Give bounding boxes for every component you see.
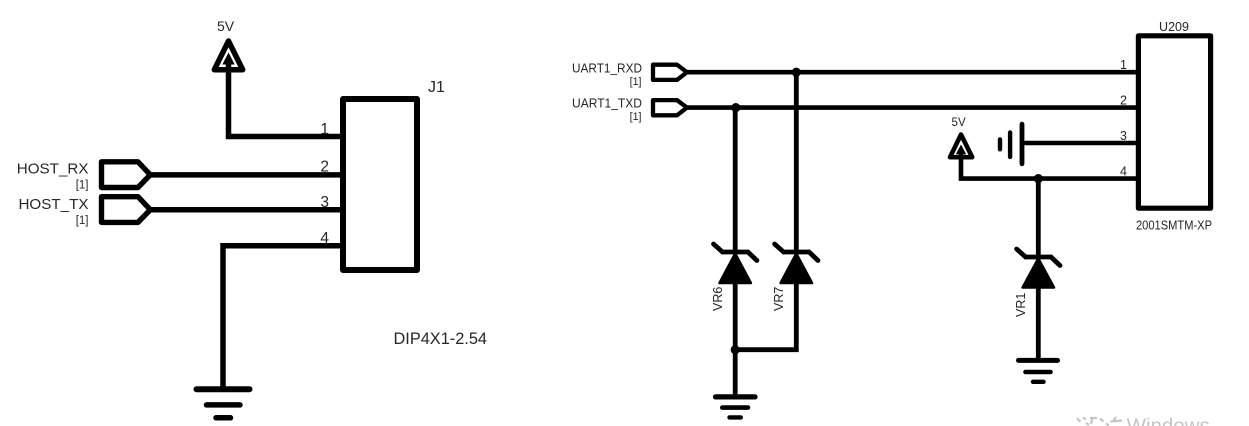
svg-text:[1]: [1] (630, 111, 642, 123)
svg-text:HOST_TX: HOST_TX (18, 196, 88, 213)
wire junction down to VR1 (1036, 179, 1041, 256)
svg-text:1: 1 (320, 121, 329, 138)
svg-text:UART1_TXD: UART1_TXD (572, 97, 642, 111)
svg-text:1: 1 (1120, 58, 1127, 72)
wire 5V (right) to U209 pin 4 (961, 155, 1138, 179)
earth ground at U209 pin 3 (1000, 124, 1022, 164)
junction on RXD line (to VR7) (792, 68, 801, 77)
wire earth ground to U209 pin 3 (1022, 141, 1138, 146)
svg-text:5V: 5V (217, 18, 235, 34)
wire VR6 to ground (733, 283, 738, 397)
svg-text:[1]: [1] (630, 76, 642, 88)
port HOST_TX (18, 196, 150, 227)
svg-text:2: 2 (320, 159, 329, 176)
svg-text:4: 4 (1120, 164, 1127, 178)
zener diode VR6 (711, 244, 757, 311)
svg-text:3: 3 (320, 194, 329, 211)
svg-text:2001SMTM-XP: 2001SMTM-XP (1136, 219, 1212, 233)
power symbol 5V (left) (214, 18, 242, 72)
junction on TXD line (to VR6) (731, 103, 740, 112)
svg-text:[1]: [1] (76, 180, 89, 192)
wire UART1_TXD to U209 pin 2 (687, 105, 1139, 110)
svg-text:2: 2 (1120, 93, 1127, 107)
svg-text:UART1_RXD: UART1_RXD (572, 61, 642, 75)
wire J1 pin 4 to ground (223, 246, 341, 390)
ground (left, under J1) (197, 389, 250, 418)
wire VR7 down and left to VR6 line (735, 283, 796, 350)
port UART1_RXD (572, 61, 687, 88)
port UART1_TXD (572, 97, 687, 124)
junction on pin4 line (to VR1) (1034, 174, 1043, 183)
svg-text:Windows: Windows (1127, 414, 1210, 426)
connector U209 box (1138, 36, 1210, 208)
ground (under VR1) (1019, 360, 1058, 381)
watermark: top of "激" character (1077, 418, 1097, 426)
svg-text:3: 3 (1120, 129, 1127, 143)
wire RXD junction down to VR7 (794, 72, 799, 250)
connector J1 box (343, 99, 417, 270)
wire TXD junction down to VR6 (733, 108, 738, 250)
svg-text:5V: 5V (952, 117, 966, 129)
svg-text:HOST_RX: HOST_RX (17, 161, 89, 178)
svg-text:J1: J1 (428, 79, 445, 96)
svg-text:[1]: [1] (76, 215, 89, 227)
svg-text:VR1: VR1 (1014, 293, 1028, 317)
svg-text:U209: U209 (1159, 20, 1189, 34)
zener diode VR1 (1014, 249, 1060, 317)
junction VR6/VR7 (731, 345, 740, 354)
power symbol 5V (right) (950, 117, 972, 159)
zener diode VR7 (772, 244, 818, 311)
wire VR1 to ground (1036, 288, 1041, 361)
svg-text:VR6: VR6 (711, 287, 725, 311)
wire UART1_RXD to U209 pin 1 (687, 70, 1139, 75)
watermark: top of "活" character (1100, 417, 1122, 426)
svg-text:4: 4 (320, 230, 329, 247)
ground (under VR6) (716, 397, 756, 418)
port HOST_RX (17, 161, 151, 192)
svg-text:VR7: VR7 (772, 287, 786, 311)
wire 5V to J1 pin 1 (229, 68, 342, 137)
svg-text:DIP4X1-2.54: DIP4X1-2.54 (394, 330, 488, 348)
wire HOST_RX to J1 pin 2 (150, 172, 341, 178)
wire HOST_TX to J1 pin 3 (150, 207, 341, 213)
